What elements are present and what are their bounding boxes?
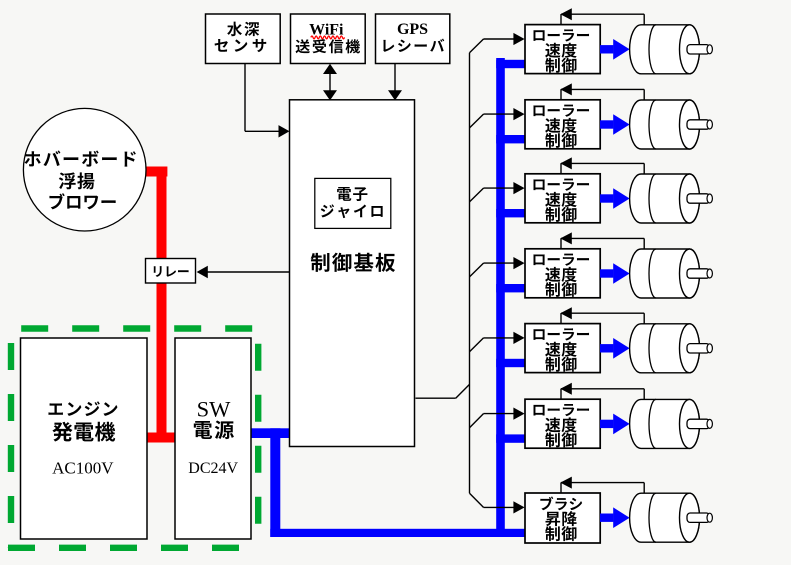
arrow: blue drive output to motor 2: [600, 114, 630, 135]
arrowhead: into roller controller 2: [513, 108, 524, 120]
wire: blue branch from bus to roller controller 6: [496, 434, 525, 442]
wire: blue branch from bus to roller controller 5: [496, 359, 525, 367]
arrow: blue drive output to motor 5: [600, 338, 630, 359]
wire: signal branch to roller controller 4: [470, 263, 515, 277]
arrowhead: feedback arrow 5 (pointing left): [560, 307, 572, 319]
arrow: blue drive output to motor 6: [600, 414, 630, 435]
wire: feedback from motor 1 to controller top: [561, 14, 644, 24]
wire: blue bottom trunk to brush controller: [270, 529, 525, 537]
wire: blue branch from bus to roller controller 3: [496, 209, 525, 217]
arrowhead: GPS wire into control board top: [388, 90, 402, 100]
wire: blue branch from bus to roller controller 4: [496, 284, 525, 292]
svg-text:DC24V: DC24V: [188, 460, 238, 477]
arrowhead: into roller controller 1: [513, 33, 524, 45]
box: control board (制御基板): [290, 100, 415, 447]
wire: signal branch to roller controller 1: [470, 39, 515, 53]
motor: roller motor 6: [630, 399, 713, 448]
svg-text:SW: SW: [197, 396, 232, 421]
wire: blue branch from bus to roller controller 2: [496, 135, 525, 143]
wire: GPS receiver down to control board: [394, 64, 396, 94]
arrowhead: into relay (pointing left): [197, 266, 208, 278]
box: SW power supply (SW電源 DC24V): [175, 338, 251, 539]
arrowhead: into roller controller 6: [513, 408, 524, 420]
wire: signal trunk from control board right edge: [416, 384, 470, 398]
box: engine generator (エンジン発電機 AC100V): [21, 338, 148, 539]
arrowhead: into brush controller: [513, 501, 524, 513]
motor: roller motor 5: [630, 324, 713, 373]
wire: signal branch to roller controller 2: [470, 114, 515, 128]
box: relay (リレー): [146, 259, 196, 284]
box: roller speed controller 6 (ローラー速度制御): [525, 399, 600, 448]
wire: WiFi double-headed arrow to control board: [329, 68, 331, 97]
wire: signal branch to roller controller 3: [470, 188, 515, 202]
wire: feedback from motor 5 to controller top: [561, 313, 644, 323]
arrowhead: into roller controller 5: [513, 332, 524, 344]
wire: signal riser (vertical fan line): [469, 53, 471, 494]
arrowhead: feedback arrow 1 (pointing left): [560, 8, 572, 20]
motor: roller motor 4: [630, 249, 713, 298]
box: electronic gyro (電子ジャイロ): [315, 178, 391, 228]
wire: blue branch from bus to roller controller 1: [496, 60, 525, 68]
circle: hover blower (ホバーボード浮揚ブロワー): [23, 108, 146, 231]
svg-text:AC100V: AC100V: [52, 458, 114, 477]
wire: feedback from motor 7 to controller top: [561, 483, 644, 493]
arrowhead: feedback arrow 4 (pointing left): [560, 232, 572, 244]
motor: roller motor 1: [630, 25, 713, 74]
arrowhead: WiFi arrow down: [323, 90, 337, 100]
wire: blue vertical bus for roller controllers: [496, 58, 505, 537]
box: roller speed controller 5 (ローラー速度制御): [525, 324, 600, 373]
wire: blue DC24V feed from SW PSU to control board: [251, 428, 290, 438]
wire: red line from blower circle to relay (vertical): [157, 167, 167, 259]
arrowhead: feedback arrow 6 (pointing left): [560, 383, 572, 395]
box: roller speed controller 1 (ローラー速度制御): [525, 25, 600, 74]
box: water depth sensor (水深センサ): [206, 14, 281, 64]
box: WiFi transceiver (WiFi 送受信機): [291, 14, 366, 64]
motor: roller motor 2: [630, 100, 713, 149]
wire: signal branch to roller controller 6: [470, 414, 515, 428]
wire: sensor to control board (down then right): [245, 64, 280, 132]
arrowhead: sensor wire into control board: [279, 125, 290, 137]
box: roller speed controller 4 (ローラー速度制御): [525, 249, 600, 298]
box: roller speed controller 2 (ローラー速度制御): [525, 100, 600, 149]
arrowhead: feedback arrow 7 (pointing left): [560, 477, 572, 489]
box: roller speed controller 3 (ローラー速度制御): [525, 174, 600, 223]
wire: signal branch to brush controller: [470, 493, 515, 507]
svg-text:WiFi: WiFi: [309, 21, 344, 38]
arrowhead: feedback arrow 3 (pointing left): [560, 157, 572, 169]
arrowhead: into roller controller 4: [513, 257, 524, 269]
wire: blue vertical drop from DC24V feed: [270, 428, 280, 537]
wire: red line from blower circle to relay (horizontal): [144, 167, 167, 177]
arrow: blue drive output to motor 3: [600, 188, 630, 209]
arrowhead: feedback arrow 2 (pointing left): [560, 83, 572, 95]
arrowhead: into roller controller 3: [513, 182, 524, 194]
box: brush lift controller (ブラシ昇降制御): [525, 493, 600, 543]
svg-text:GPS: GPS: [397, 21, 428, 38]
arrowhead: WiFi arrow up: [323, 64, 337, 74]
motor: roller motor 3: [630, 174, 713, 223]
arrow: blue drive output to motor 4: [600, 263, 630, 284]
wire: feedback from motor 2 to controller top: [561, 89, 644, 99]
arrow: blue drive output to brush motor: [600, 507, 630, 528]
box: GPS receiver (GPS レシーバ): [376, 14, 450, 64]
enclosure: green dashed power-unit boundary: [8, 329, 258, 548]
wire: red line relay down to AC junction: [157, 281, 167, 443]
wire: red line engine generator to SW PSU: [145, 433, 176, 443]
wire: feedback from motor 6 to controller top: [561, 389, 644, 399]
arrow: blue drive output to motor 1: [600, 39, 630, 60]
wire: feedback from motor 3 to controller top: [561, 163, 644, 173]
wire: feedback from motor 4 to controller top: [561, 238, 644, 248]
wire: signal branch to roller controller 5: [470, 338, 515, 352]
wire: control board to relay: [206, 271, 290, 273]
motor: brush lift motor: [630, 493, 713, 542]
